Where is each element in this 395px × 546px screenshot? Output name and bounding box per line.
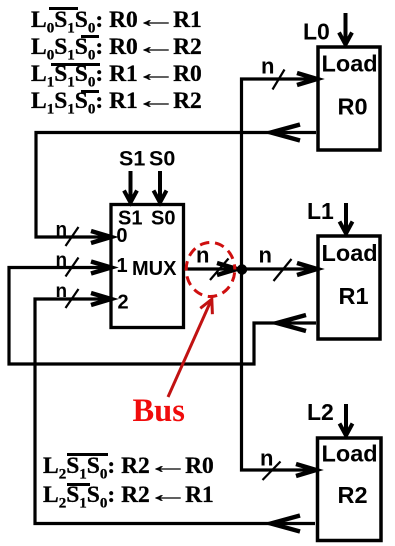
- svg-text:2: 2: [118, 292, 129, 314]
- overline bar: S0-bar in equation line 4: [81, 90, 99, 93]
- wire R0 output back to MUX input 0: [36, 133, 316, 238]
- svg-text:Load: Load: [322, 51, 378, 77]
- svg-text:MUX: MUX: [132, 258, 177, 280]
- overline bar: S0-bar in equation line 2: [81, 35, 99, 38]
- svg-text:0: 0: [116, 225, 127, 247]
- svg-text:R1: R1: [339, 283, 369, 309]
- overline bar: S1-bar in equation line 1: [49, 7, 78, 10]
- logic equation: L2.S1'.S0' : R2 <- R0 (and following line): [43, 452, 214, 510]
- logic equation: L0.S1'.S0 : R0 <- R1 (and following three lines): [31, 7, 202, 116]
- MUX U1 box: [111, 205, 184, 328]
- svg-text:n: n: [261, 54, 274, 79]
- svg-text:S0: S0: [151, 208, 175, 230]
- wire R1 output back to MUX input 1: [9, 268, 316, 365]
- wire S1 select into MUX top: [129, 171, 133, 201]
- overline bar: S1S0-bar in equation line 3: [51, 63, 100, 66]
- svg-text:n: n: [56, 250, 68, 271]
- svg-text:1: 1: [117, 255, 128, 277]
- wire S0 select into MUX top: [158, 171, 162, 201]
- node: bus junction dot: [237, 264, 247, 274]
- wire bus: MUX output to node and on to R1 load input: [185, 267, 314, 270]
- svg-text:n: n: [259, 243, 272, 268]
- svg-text:R0: R0: [338, 94, 368, 120]
- overline bar: S1S0-bar in bottom equation line 1: [67, 453, 108, 456]
- svg-text:n: n: [56, 281, 68, 302]
- wire L1 load control into R1: [344, 203, 348, 232]
- svg-text:S1: S1: [119, 147, 145, 171]
- svg-text:Bus: Bus: [133, 393, 185, 429]
- register R1 box: [318, 236, 380, 339]
- wire bus vertical with branches to R0 and R2 load inputs: [242, 79, 316, 470]
- svg-text:n: n: [196, 243, 209, 268]
- wire L0 load control into R0: [344, 13, 348, 43]
- register R2 box: [318, 438, 382, 541]
- svg-text:Load: Load: [322, 441, 378, 467]
- svg-text:Load: Load: [322, 240, 378, 266]
- register R0 box: [318, 47, 380, 150]
- wire R2 output back to MUX input 2: [35, 299, 315, 524]
- svg-text:S0: S0: [149, 147, 175, 171]
- svg-text:R2: R2: [338, 482, 368, 508]
- svg-text:n: n: [260, 446, 273, 471]
- wire L2 load control into R2: [344, 404, 348, 434]
- svg-text:n: n: [56, 220, 68, 241]
- svg-text:L2: L2: [307, 399, 334, 425]
- bus highlight: red dashed circle around bus node: [186, 243, 235, 297]
- svg-text:L0: L0: [303, 19, 330, 45]
- overline bar: S1-bar in bottom equation line 2: [67, 483, 90, 486]
- red callout arrow from Bus label to circle: [168, 300, 212, 398]
- svg-text:L1: L1: [307, 198, 334, 224]
